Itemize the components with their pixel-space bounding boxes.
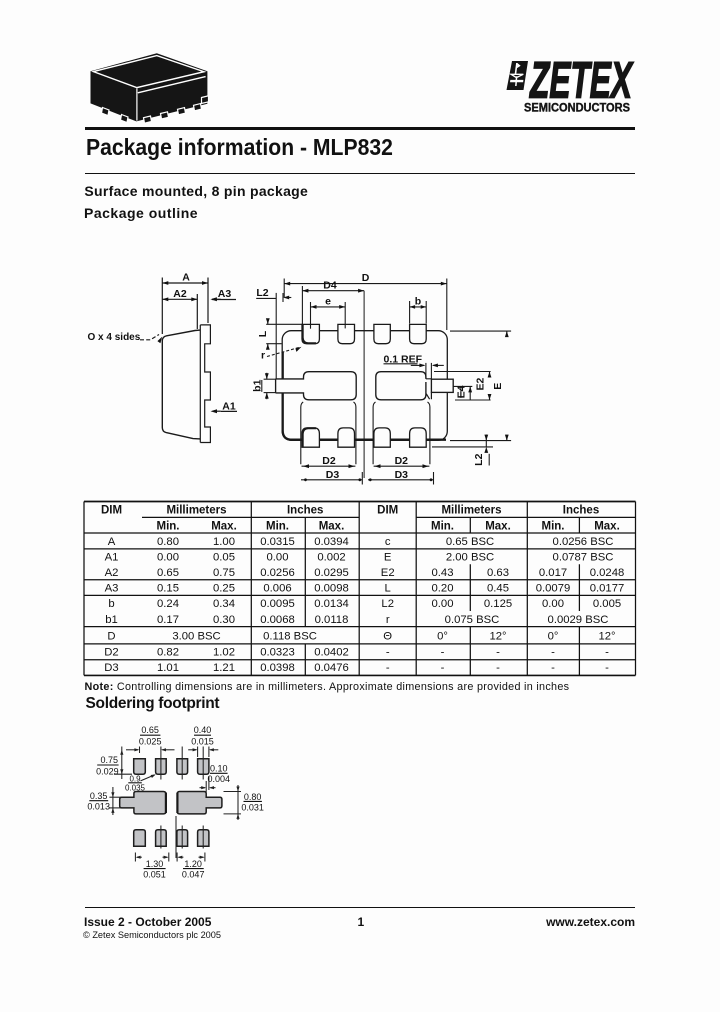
- dim b1: [264, 378, 276, 380]
- right pad: [376, 372, 426, 400]
- svg-text:-: -: [441, 662, 445, 674]
- fraction bars: [140, 734, 160, 736]
- svg-text:0.24: 0.24: [157, 598, 179, 610]
- svg-text:Inches: Inches: [563, 505, 599, 517]
- svg-text:1.01: 1.01: [157, 662, 179, 674]
- 0.10 dim: [208, 776, 210, 790]
- side view lead strip: [199, 325, 201, 443]
- svg-text:A2: A2: [105, 567, 119, 579]
- dim A2: [162, 298, 197, 300]
- right tab: [431, 379, 453, 392]
- svg-text:E4: E4: [456, 385, 468, 398]
- bottom dims: [134, 853, 136, 862]
- svg-text:-: -: [605, 662, 609, 674]
- svg-text:Min.: Min.: [157, 520, 180, 532]
- svg-text:Θ: Θ: [383, 631, 392, 643]
- svg-text:0.035: 0.035: [125, 783, 146, 792]
- svg-text:L2: L2: [473, 453, 485, 465]
- svg-text:E2: E2: [475, 378, 487, 391]
- svg-text:D: D: [107, 631, 115, 643]
- svg-text:D2: D2: [322, 455, 336, 467]
- svg-text:-: -: [386, 646, 390, 658]
- svg-text:0.65: 0.65: [157, 567, 179, 579]
- dim A3: [212, 299, 236, 301]
- svg-text:0.125: 0.125: [484, 598, 512, 610]
- svg-text:D: D: [362, 272, 370, 284]
- side view labels: [88, 272, 236, 413]
- soldering footprint heading: [86, 696, 220, 712]
- dim E exts: [450, 330, 511, 332]
- svg-text:D2: D2: [395, 455, 409, 467]
- svg-text:L2: L2: [381, 598, 394, 610]
- dim A1: [221, 410, 237, 412]
- svg-text:D3: D3: [395, 469, 409, 481]
- svg-text:Min.: Min.: [266, 520, 289, 532]
- svg-text:1.00: 1.00: [213, 536, 235, 548]
- svg-text:DIM: DIM: [377, 505, 398, 517]
- svg-text:0.0098: 0.0098: [314, 583, 349, 595]
- centerline: [175, 816, 177, 858]
- svg-text:0°: 0°: [548, 631, 559, 643]
- svg-text:0.35: 0.35: [90, 791, 108, 801]
- leader O x 4 sides: [140, 335, 159, 340]
- dimension lines: [89, 735, 262, 868]
- svg-text:0.65 BSC: 0.65 BSC: [446, 536, 494, 548]
- svg-text:0°: 0°: [437, 631, 448, 643]
- svg-text:0.05: 0.05: [213, 552, 235, 564]
- svg-text:Millimeters: Millimeters: [166, 505, 226, 517]
- PAGE HEADER: [85, 48, 215, 126]
- svg-text:A: A: [108, 536, 116, 548]
- svg-text:b: b: [415, 295, 421, 307]
- dim D3 left: [301, 479, 362, 481]
- svg-text:0.0029 BSC: 0.0029 BSC: [548, 614, 609, 626]
- svg-text:A2: A2: [173, 288, 187, 300]
- side view body: [162, 330, 200, 427]
- svg-text:0.025: 0.025: [139, 736, 162, 746]
- dim L2 bottom right: [432, 446, 493, 448]
- svg-text:0.82: 0.82: [157, 646, 179, 658]
- dim E4: [453, 385, 472, 387]
- DIMENSION TABLE: [80, 497, 640, 683]
- svg-text:1.20: 1.20: [184, 859, 202, 869]
- dimension lines top view: [256, 279, 511, 485]
- PACKAGE OUTLINE DRAWING: [85, 258, 515, 495]
- svg-text:0.17: 0.17: [157, 614, 179, 626]
- svg-text:0.118 BSC: 0.118 BSC: [263, 631, 317, 643]
- svg-text:0.0095: 0.0095: [260, 598, 295, 610]
- svg-text:D3: D3: [104, 662, 118, 674]
- dim D: [284, 283, 447, 285]
- bottom pins: [302, 428, 426, 447]
- svg-text:0.047: 0.047: [182, 870, 205, 880]
- svg-text:e: e: [325, 295, 331, 307]
- svg-text:0.0402: 0.0402: [314, 646, 349, 658]
- svg-text:SEMICONDUCTORS: SEMICONDUCTORS: [524, 100, 630, 114]
- svg-text:0.051: 0.051: [143, 870, 166, 880]
- svg-text:0.75: 0.75: [100, 755, 118, 765]
- mid right pad: [177, 792, 222, 814]
- svg-text:0.017: 0.017: [539, 567, 567, 579]
- dim A: [162, 282, 208, 284]
- svg-text:0.031: 0.031: [241, 803, 264, 813]
- 0.9 leader: [141, 775, 155, 781]
- svg-text:0.10: 0.10: [210, 764, 228, 774]
- thick left and bottom edge: [283, 352, 446, 440]
- dim L2 top left: [256, 297, 276, 299]
- svg-text:0.015: 0.015: [191, 736, 214, 746]
- svg-text:0.0177: 0.0177: [590, 583, 625, 595]
- svg-text:-: -: [386, 662, 390, 674]
- subhead 2: [84, 206, 198, 220]
- svg-text:Millimeters: Millimeters: [441, 505, 501, 517]
- svg-text:0.00: 0.00: [157, 552, 179, 564]
- svg-text:-: -: [496, 662, 500, 674]
- dim L: [266, 323, 303, 325]
- top pads: [134, 759, 146, 774]
- svg-text:A1: A1: [105, 552, 119, 564]
- dim D2 left: [302, 465, 356, 467]
- svg-text:A3: A3: [218, 288, 232, 300]
- svg-text:0.0118: 0.0118: [315, 614, 349, 626]
- note: [85, 682, 570, 693]
- dim D2 right: [374, 465, 430, 467]
- svg-text:0.25: 0.25: [213, 583, 235, 595]
- D2 D3 brackets: [301, 402, 303, 464]
- svg-text:A1: A1: [222, 401, 236, 413]
- pads: [120, 759, 222, 847]
- left pad and tab: [276, 372, 357, 400]
- svg-text:Min.: Min.: [431, 520, 454, 532]
- svg-text:2.00 BSC: 2.00 BSC: [446, 552, 494, 564]
- svg-text:-: -: [605, 646, 609, 658]
- svg-text:b1: b1: [251, 379, 263, 391]
- svg-text:0.43: 0.43: [432, 567, 454, 579]
- svg-text:Max.: Max.: [211, 520, 237, 532]
- svg-text:Inches: Inches: [287, 505, 323, 517]
- dim D3 right: [368, 479, 434, 481]
- svg-text:E: E: [384, 552, 392, 564]
- svg-text:D3: D3: [326, 469, 340, 481]
- svg-text:0.0398: 0.0398: [260, 662, 295, 674]
- svg-text:0.0394: 0.0394: [314, 536, 349, 548]
- arrowheads top view: [265, 282, 509, 481]
- svg-text:0.005: 0.005: [593, 598, 621, 610]
- svg-text:0.0295: 0.0295: [314, 567, 349, 579]
- pin1 thick edges: [303, 324, 316, 343]
- svg-text:0.0248: 0.0248: [590, 567, 625, 579]
- dim E2: [434, 371, 491, 373]
- top view labels: [251, 272, 504, 481]
- svg-text:0.15: 0.15: [157, 583, 179, 595]
- svg-text:0.029: 0.029: [96, 766, 119, 776]
- svg-text:E: E: [492, 383, 504, 390]
- svg-text:0.65: 0.65: [141, 725, 159, 735]
- svg-text:0.0315: 0.0315: [260, 536, 295, 548]
- thick title rule: [85, 127, 635, 130]
- svg-text:c: c: [385, 536, 391, 548]
- top view: [282, 331, 447, 441]
- svg-text:0.00: 0.00: [432, 598, 454, 610]
- svg-text:D4: D4: [323, 280, 337, 292]
- Zetex logo diode box: [507, 61, 529, 90]
- svg-text:0.9: 0.9: [129, 775, 141, 784]
- svg-text:0.40: 0.40: [194, 725, 212, 735]
- svg-text:0.0068: 0.0068: [260, 614, 295, 626]
- svg-text:12°: 12°: [598, 631, 615, 643]
- 0.1 REF: [384, 363, 418, 365]
- dim e: [311, 306, 346, 308]
- svg-text:0.002: 0.002: [317, 552, 345, 564]
- svg-text:1.21: 1.21: [213, 662, 235, 674]
- 0.35 dim: [112, 787, 114, 815]
- svg-text:E2: E2: [381, 567, 395, 579]
- arrowheads side view: [157, 281, 217, 413]
- svg-text:0.00: 0.00: [542, 598, 564, 610]
- table grid: [84, 502, 636, 676]
- top pins: [302, 324, 426, 343]
- svg-text:b1: b1: [105, 614, 118, 626]
- svg-text:0.0787 BSC: 0.0787 BSC: [553, 552, 614, 564]
- svg-text:0.80: 0.80: [157, 536, 179, 548]
- svg-text:0.34: 0.34: [213, 598, 235, 610]
- svg-text:0.45: 0.45: [487, 583, 509, 595]
- thick facing edges: [165, 793, 167, 813]
- dim b: [410, 306, 427, 308]
- svg-text:0.1 REF: 0.1 REF: [384, 353, 423, 365]
- svg-text:0.75: 0.75: [213, 567, 235, 579]
- body: [282, 331, 447, 441]
- svg-text:L2: L2: [256, 287, 268, 299]
- svg-text:0.20: 0.20: [432, 583, 454, 595]
- svg-text:L: L: [257, 330, 269, 337]
- 0.75 dim: [121, 747, 123, 780]
- dimension texts: [87, 725, 263, 880]
- subhead 1: [84, 184, 308, 198]
- svg-text:-: -: [441, 646, 445, 658]
- svg-text:O x 4 sides: O x 4 sides: [88, 332, 141, 343]
- svg-text:A3: A3: [105, 583, 119, 595]
- table data: [104, 536, 624, 674]
- svg-text:0.0079: 0.0079: [536, 583, 571, 595]
- svg-text:0.0256: 0.0256: [260, 567, 295, 579]
- svg-text:0.013: 0.013: [87, 802, 110, 812]
- svg-text:0.0256 BSC: 0.0256 BSC: [553, 536, 614, 548]
- dim D4: [302, 290, 364, 292]
- svg-text:Min.: Min.: [542, 520, 565, 532]
- svg-text:0.006: 0.006: [263, 583, 291, 595]
- arrowheads: [111, 748, 239, 859]
- thin rule: [85, 173, 635, 174]
- package 3D icon: [91, 53, 209, 123]
- bottom pads: [134, 830, 146, 847]
- svg-text:0.0476: 0.0476: [314, 662, 349, 674]
- svg-text:Max.: Max.: [594, 520, 620, 532]
- svg-text:1.02: 1.02: [213, 646, 235, 658]
- svg-text:3.00 BSC: 3.00 BSC: [172, 631, 220, 643]
- svg-text:D2: D2: [104, 646, 118, 658]
- svg-text:0.004: 0.004: [208, 774, 231, 784]
- svg-text:0.075 BSC: 0.075 BSC: [445, 614, 500, 626]
- leader r: [267, 347, 300, 356]
- mid left pad: [120, 792, 166, 814]
- svg-text:-: -: [496, 646, 500, 658]
- svg-text:0.0323: 0.0323: [260, 646, 295, 658]
- svg-text:Max.: Max.: [485, 520, 511, 532]
- svg-text:Max.: Max.: [319, 520, 345, 532]
- title: [86, 136, 393, 159]
- svg-text:0.0134: 0.0134: [314, 598, 349, 610]
- svg-text:-: -: [551, 646, 555, 658]
- centerline: [363, 291, 365, 478]
- svg-text:1.30: 1.30: [146, 859, 164, 869]
- FOOTER: [85, 907, 635, 908]
- svg-text:0.80: 0.80: [244, 792, 262, 802]
- svg-text:b: b: [108, 598, 114, 610]
- 0.80 dim: [237, 785, 239, 820]
- svg-text:r: r: [386, 614, 390, 626]
- svg-text:r: r: [261, 350, 265, 362]
- svg-text:DIM: DIM: [101, 505, 122, 517]
- svg-text:0.63: 0.63: [487, 567, 509, 579]
- svg-text:0.00: 0.00: [267, 552, 289, 564]
- svg-text:A: A: [182, 272, 190, 284]
- svg-text:-: -: [551, 662, 555, 674]
- svg-text:0.30: 0.30: [213, 614, 235, 626]
- FOOTPRINT DRAWING: [85, 715, 270, 890]
- table header text: [101, 505, 620, 533]
- svg-text:12°: 12°: [489, 631, 506, 643]
- svg-text:L: L: [385, 583, 391, 595]
